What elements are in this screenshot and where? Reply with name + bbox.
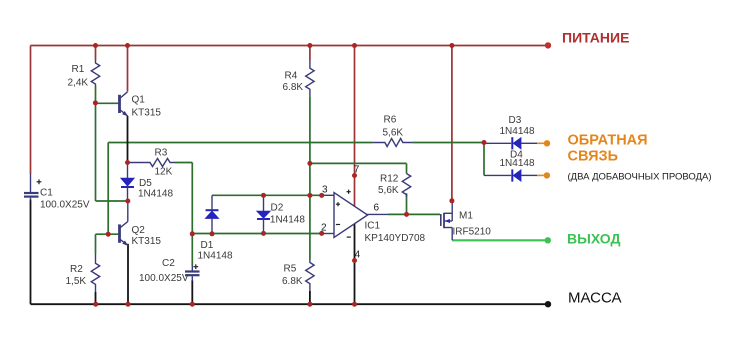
- node: M1 source endpoint: [449, 198, 454, 203]
- capacitor C1: [24, 174, 41, 201]
- svg-text:R6: R6: [384, 115, 397, 126]
- node: rail/R4: [307, 43, 312, 48]
- node: D2/non-inverting net: [261, 193, 266, 198]
- svg-text:R1: R1: [72, 64, 85, 75]
- node: pin 4 endpoint: [352, 258, 357, 263]
- wire: feedback branch down to D4: [483, 143, 485, 176]
- node: D1/inverting net: [210, 231, 215, 236]
- wire: IC1 pin 7 stub: [354, 176, 356, 207]
- node: R4/R12 branch: [307, 161, 312, 166]
- resistor R5: [306, 260, 314, 292]
- wire: R2 bottom to ground: [95, 292, 97, 304]
- wire: Q2 base node left: [96, 233, 119, 235]
- svg-text:IC1: IC1: [365, 221, 381, 232]
- wire: feedback vertical to Q2 base: [107, 143, 109, 235]
- wire: node down to D5 bottom net: [95, 103, 97, 201]
- svg-text:ОБРАТНАЯ: ОБРАТНАЯ: [568, 133, 648, 149]
- wire: feedback line right of R6: [413, 142, 484, 144]
- svg-text:D3: D3: [509, 115, 522, 126]
- wire: rail to M1 source: [451, 46, 453, 201]
- node: D2/inverting net: [261, 231, 266, 236]
- node: R12/output: [404, 212, 409, 217]
- svg-text:IRF5210: IRF5210: [453, 227, 492, 238]
- svg-text:1N4148: 1N4148: [500, 126, 535, 137]
- svg-text:1N4148: 1N4148: [138, 189, 173, 200]
- node: rail/Q1 collector: [125, 43, 130, 48]
- transistor M1 MOSFET: [441, 201, 452, 241]
- wire: IC1 pin 4 to ground: [354, 261, 356, 305]
- node: R1/Q1 base: [93, 100, 98, 105]
- wire: Q2 emitter to ground: [127, 244, 129, 304]
- wire: left vertical from rail to C1: [30, 46, 32, 175]
- svg-text:D1: D1: [201, 240, 214, 251]
- diode D5: [121, 163, 134, 202]
- svg-text:C1: C1: [40, 188, 53, 199]
- wire: IC1 pin 4 stub: [354, 224, 356, 261]
- node: pin 3 endpoint: [319, 193, 324, 198]
- node: feedback/D3/D4 branch: [482, 140, 487, 145]
- wire: positive supply top rail: [31, 45, 549, 47]
- svg-text:7: 7: [354, 165, 360, 176]
- wire: ground bottom rail: [31, 303, 549, 305]
- svg-text:4: 4: [355, 249, 361, 260]
- wire: horizontal into D5/Q2 collector node: [96, 200, 128, 202]
- svg-text:5,6K: 5,6K: [378, 185, 399, 196]
- op-amp input polarity marks: [336, 190, 351, 238]
- svg-text:ВЫХОД: ВЫХОД: [567, 231, 620, 247]
- diode D4: [484, 169, 545, 181]
- svg-text:1N4148: 1N4148: [270, 215, 305, 226]
- node: Q1 emitter/R3/D5: [125, 160, 130, 165]
- diode D1: [206, 195, 219, 234]
- svg-text:ПИТАНИЕ: ПИТАНИЕ: [562, 30, 629, 46]
- resistor R4: [306, 61, 314, 97]
- svg-text:R4: R4: [285, 71, 298, 82]
- svg-text:6: 6: [374, 203, 380, 214]
- node: rail/R1: [93, 43, 98, 48]
- svg-text:R12: R12: [380, 174, 399, 185]
- svg-text:KT315: KT315: [132, 108, 162, 119]
- wire: C1 bottom to ground rail: [30, 200, 32, 305]
- terminal: feedback upper: [544, 140, 550, 146]
- transistor Q2: [120, 201, 129, 246]
- wire: non-inverting net horizontal: [212, 194, 322, 196]
- node: ground/R2: [93, 302, 98, 307]
- node: rail/M1 source: [449, 43, 454, 48]
- svg-text:12K: 12K: [155, 167, 173, 178]
- svg-text:2,4K: 2,4K: [68, 78, 89, 89]
- node: D5/Q2 collector: [125, 199, 130, 204]
- wire: inverting net down to C2: [191, 234, 193, 266]
- svg-text:C2: C2: [162, 258, 175, 269]
- svg-text:R3: R3: [155, 148, 168, 159]
- terminal: output: [545, 237, 551, 243]
- wire: feedback line left of R6: [108, 142, 372, 144]
- node: ground/C2: [190, 302, 195, 307]
- svg-text:KT315: KT315: [132, 236, 162, 247]
- svg-text:МАССА: МАССА: [568, 290, 622, 307]
- svg-text:2: 2: [321, 223, 327, 234]
- node: R3/inverting net: [190, 231, 195, 236]
- node: R4/non-inverting net: [307, 193, 312, 198]
- svg-text:СВЯЗЬ: СВЯЗЬ: [568, 149, 619, 165]
- svg-text:Q2: Q2: [132, 225, 146, 236]
- svg-text:6.8K: 6.8K: [282, 276, 303, 287]
- wire: R1 bottom to base node: [95, 86, 97, 103]
- node: ground/R5: [307, 302, 312, 307]
- svg-text:R5: R5: [284, 264, 297, 275]
- wire: R4 bottom vertical through nodes to R5: [309, 96, 311, 259]
- op-amp U1 IC1: [322, 193, 388, 238]
- wire: M1 drain to output terminal (bright green): [452, 239, 548, 241]
- net label: ОБРАТНАЯ СВЯЗЬ: [568, 133, 648, 165]
- svg-text:D2: D2: [271, 203, 284, 214]
- wire: R3 right lead into corner: [175, 162, 192, 164]
- wire: Q2 base node down to R2: [95, 234, 97, 253]
- svg-text:M1: M1: [459, 211, 473, 222]
- wire: R12 top corner lead: [406, 163, 408, 173]
- resistor R3: [128, 159, 176, 167]
- svg-text:1,5K: 1,5K: [66, 276, 87, 287]
- resistor R12: [402, 174, 410, 197]
- node: rail/pin7: [352, 43, 357, 48]
- node: ground/pin4: [352, 302, 357, 307]
- wire: rail to R1 top: [95, 46, 97, 61]
- wire: rail to Q1 collector: [127, 46, 129, 92]
- wire: C2 bottom to ground: [191, 280, 193, 304]
- svg-text:KP140YD708: KP140YD708: [365, 233, 426, 244]
- svg-text:5,6K: 5,6K: [383, 128, 404, 139]
- wire: IC1 output to M1 gate: [388, 213, 440, 215]
- wire: R3 corner down to inverting net: [191, 163, 193, 234]
- svg-text:Q1: Q1: [132, 95, 146, 106]
- resistor R6: [372, 139, 412, 147]
- wire: inverting input net horizontal: [192, 233, 322, 235]
- svg-text:6.8K: 6.8K: [283, 82, 304, 93]
- wire: rail to R4 top: [309, 46, 311, 61]
- transistor Q1: [120, 92, 129, 117]
- node: pin 7 endpoint: [352, 173, 357, 178]
- svg-text:100.0X25V: 100.0X25V: [40, 200, 90, 211]
- node: pin 2 endpoint: [319, 231, 324, 236]
- svg-text:D5: D5: [139, 178, 152, 189]
- wire: Q1 emitter to R3/D5 node: [127, 116, 129, 163]
- capacitor C2: [185, 264, 200, 281]
- svg-text:1N4148: 1N4148: [198, 251, 233, 262]
- terminal: ground: [545, 301, 551, 307]
- wire: rail to IC1 pin 7: [354, 46, 356, 176]
- node: feedback/Q2 base: [106, 232, 111, 237]
- wire: node to Q1 base: [96, 102, 119, 104]
- terminal: feedback lower: [544, 172, 550, 178]
- resistor R1: [91, 61, 99, 87]
- svg-text:R2: R2: [70, 264, 83, 275]
- node: ground/Q2 emitter: [126, 302, 131, 307]
- resistor R2: [91, 254, 99, 293]
- wire: branch to R12 top: [310, 162, 407, 164]
- wire: R5 bottom to ground: [309, 291, 311, 304]
- diode D3: [484, 137, 545, 149]
- diode D2: [257, 195, 270, 233]
- svg-text:1N4148: 1N4148: [500, 158, 535, 169]
- wire: R12 bottom lead to output: [406, 193, 408, 214]
- terminal: power: [545, 42, 551, 48]
- svg-text:3: 3: [322, 185, 328, 196]
- svg-text:(ДВА ДОБАВОЧНЫХ ПРОВОДА): (ДВА ДОБАВОЧНЫХ ПРОВОДА): [568, 172, 712, 183]
- svg-text:100.0X25V: 100.0X25V: [139, 273, 189, 284]
